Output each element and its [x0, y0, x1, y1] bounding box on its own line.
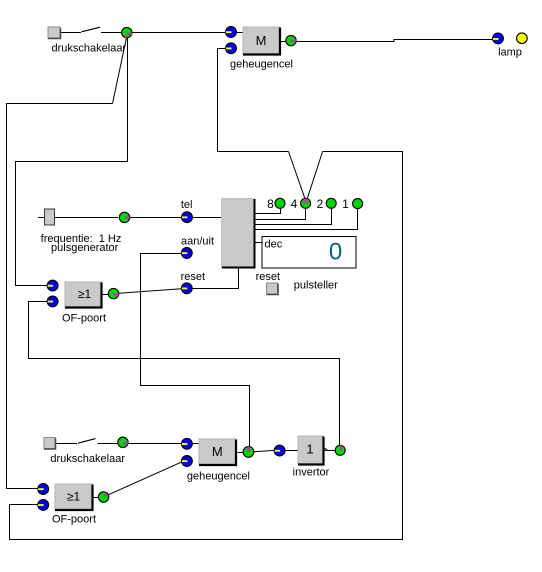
svg-text:drukschakelaar: drukschakelaar: [50, 453, 125, 465]
svg-text:OF-poort: OF-poort: [62, 313, 106, 325]
svg-text:M: M: [212, 444, 223, 459]
svg-text:lamp: lamp: [498, 47, 522, 59]
svg-text:≥1: ≥1: [67, 490, 81, 504]
svg-text:8: 8: [267, 197, 274, 211]
svg-text:1: 1: [342, 197, 349, 211]
svg-text:geheugencel: geheugencel: [187, 471, 250, 483]
svg-text:2: 2: [317, 197, 324, 211]
svg-text:pulsteller: pulsteller: [294, 279, 338, 291]
svg-text:geheugencel: geheugencel: [230, 59, 293, 71]
svg-text:dec: dec: [265, 239, 283, 251]
svg-text:tel: tel: [181, 199, 193, 211]
svg-text:≥1: ≥1: [78, 287, 92, 301]
svg-text:pulsgenerator: pulsgenerator: [51, 242, 119, 254]
svg-text:aan/uit: aan/uit: [181, 236, 214, 248]
svg-text:0: 0: [329, 239, 342, 266]
svg-text:1: 1: [306, 442, 313, 457]
svg-text:drukschakelaar: drukschakelaar: [52, 43, 127, 55]
svg-text:reset: reset: [256, 271, 280, 283]
svg-text:reset: reset: [181, 271, 205, 283]
svg-text:OF-poort: OF-poort: [52, 514, 96, 526]
svg-text:4: 4: [291, 197, 298, 211]
svg-text:M: M: [256, 33, 267, 48]
svg-text:invertor: invertor: [293, 467, 330, 479]
